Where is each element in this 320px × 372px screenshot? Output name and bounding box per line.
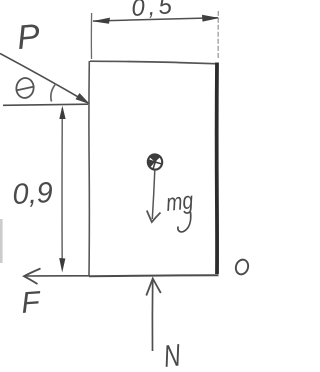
friction force arrow F xyxy=(26,275,89,277)
vertical dimension arrow 0,9 xyxy=(61,108,63,268)
angle arc xyxy=(51,84,56,102)
svg-text:P: P xyxy=(15,17,41,57)
top dimension right arrowhead xyxy=(202,15,220,22)
weight arrowhead xyxy=(147,211,161,223)
block left edge xyxy=(88,61,90,276)
top dimension extension line right xyxy=(217,11,219,60)
block bottom edge xyxy=(89,275,219,276)
center of mass symbol xyxy=(147,153,163,170)
weight arrow mg xyxy=(152,170,155,219)
g descender tail xyxy=(178,212,191,232)
origin label 0 xyxy=(234,258,250,276)
block right edge (dark thick) xyxy=(215,63,219,275)
force P arrow (diagonal) xyxy=(0,54,86,102)
top dimension left arrowhead xyxy=(92,18,110,24)
svg-text:0,9: 0,9 xyxy=(12,177,54,211)
normal force arrow N xyxy=(151,279,153,351)
svg-text:N: N xyxy=(162,337,183,372)
top dimension extension line left xyxy=(90,13,92,59)
top dimension arrow line 0,5 xyxy=(93,18,218,21)
normal arrowhead xyxy=(146,279,161,296)
angle theta symbol xyxy=(15,77,35,99)
friction arrowhead xyxy=(24,269,41,285)
svg-text:0,5: 0,5 xyxy=(131,0,177,22)
dimension 0,9 top arrowhead xyxy=(59,106,65,119)
dimension 0,9 bottom arrowhead xyxy=(59,258,65,273)
svg-text:F: F xyxy=(20,286,42,320)
block top edge xyxy=(90,61,218,64)
horizontal reference line xyxy=(3,104,88,105)
force P arrowhead xyxy=(76,93,91,104)
scan streak left edge xyxy=(0,219,3,263)
